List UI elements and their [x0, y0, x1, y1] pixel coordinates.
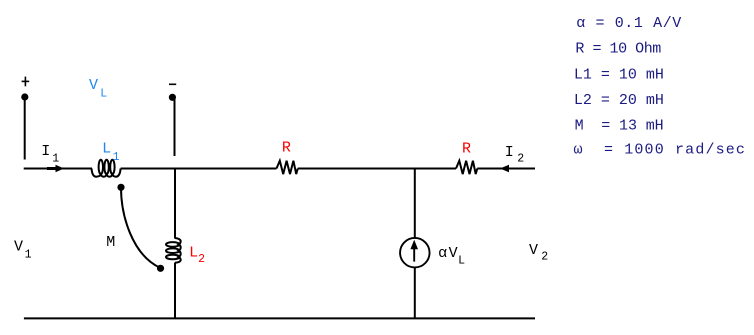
wire top segment between resistors: [298, 168, 456, 170]
resistor R (right): [456, 161, 477, 174]
svg-text:V: V: [529, 242, 538, 259]
svg-text:R: R: [282, 140, 291, 157]
label L2: [189, 244, 205, 266]
svg-text:L: L: [189, 244, 198, 261]
svg-text:V: V: [89, 77, 98, 94]
wire from L2 down to bottom wire: [174, 263, 176, 319]
svg-text:L2 = 20 mH: L2 = 20 mH: [574, 92, 664, 109]
svg-text:R: R: [462, 140, 471, 157]
svg-text:1: 1: [113, 151, 120, 164]
svg-text:V: V: [14, 238, 23, 255]
label I1: [41, 143, 59, 165]
svg-text:α = 0.1 A/V: α = 0.1 A/V: [576, 15, 682, 32]
svg-text:I: I: [41, 143, 50, 160]
svg-text:α: α: [438, 245, 447, 262]
inductor L1: [92, 160, 121, 177]
probe + terminal: [21, 77, 29, 160]
resistor R (middle): [277, 161, 298, 174]
node wire down from top wire to L2: [174, 169, 176, 239]
svg-text:1: 1: [25, 248, 32, 261]
current arrow I2: [500, 165, 509, 173]
svg-text:2: 2: [517, 152, 524, 165]
current arrow I1: [47, 165, 64, 173]
svg-text:2: 2: [198, 253, 205, 266]
label I2: [505, 144, 525, 166]
probe - terminal: [169, 84, 176, 156]
mutual inductance arc M: [117, 184, 164, 272]
dependent current source: [400, 238, 430, 268]
svg-text:L: L: [102, 140, 111, 157]
svg-text:M: M: [106, 234, 115, 251]
svg-text:ω = 1000 rad/sec: ω = 1000 rad/sec: [574, 142, 747, 159]
label V1: [14, 238, 32, 261]
label V2: [529, 242, 548, 263]
label alpha VL: [438, 245, 465, 268]
bottom wire: [24, 317, 535, 319]
label L1: [102, 140, 120, 164]
svg-text:V: V: [449, 245, 458, 262]
inductor L2: [166, 238, 181, 263]
parameter text block: [574, 15, 747, 159]
svg-text:R = 10 Ohm: R = 10 Ohm: [575, 41, 661, 58]
svg-text:M = 13 mH: M = 13 mH: [575, 117, 664, 134]
wire top left segment: [24, 168, 92, 170]
node VL label: [89, 77, 107, 100]
svg-text:I: I: [505, 144, 514, 161]
svg-text:L1 = 10 mH: L1 = 10 mH: [574, 67, 664, 84]
wire top right segment: [477, 168, 535, 170]
svg-text:1: 1: [52, 152, 59, 165]
wire from current source down to bottom wire: [414, 268, 416, 319]
svg-text:L: L: [458, 255, 465, 268]
wire from top wire down to current source: [414, 169, 416, 238]
svg-text:2: 2: [541, 250, 548, 263]
wire top middle segment: [121, 168, 277, 170]
svg-text:L: L: [100, 87, 107, 100]
